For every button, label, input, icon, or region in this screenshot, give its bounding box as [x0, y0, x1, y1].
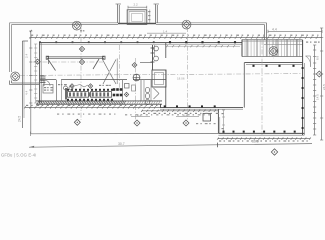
dimension string at wall step	[223, 110, 225, 133]
svg-text:1.4: 1.4	[163, 29, 168, 33]
conference table 2	[91, 92, 112, 98]
table inner marks	[69, 92, 71, 96]
fixture circle a	[64, 86, 68, 90]
svg-text:24.5: 24.5	[17, 116, 21, 122]
plumbing fixture circle 2	[154, 56, 159, 61]
dimension string east v1	[314, 45, 316, 135]
wall hall west	[243, 63, 245, 108]
wire: canopy east drop vertical	[266, 23, 268, 44]
wing partition wall vertical 3	[140, 80, 142, 101]
wire: canopy edge under elevator	[118, 23, 156, 25]
grid line B horizontal short	[33, 61, 103, 63]
wire: canopy edge top-right horizontal	[156, 22, 267, 24]
dimension tier line top right 4.4	[268, 30, 322, 32]
wire: terrace step horizontal	[10, 84, 40, 86]
grid line 3 vertical	[119, 45, 121, 90]
wire: canopy west edge vertical	[9, 23, 11, 72]
column symbol circle-cross	[133, 74, 140, 81]
wc fixtures east	[145, 87, 149, 92]
dimension string east v2	[321, 28, 323, 140]
partition vertical x151	[150, 80, 152, 101]
core wall jagged vertical	[152, 45, 154, 70]
svg-text:30.7: 30.7	[118, 142, 125, 146]
dimension line far west double	[21, 41, 23, 128]
dimension string hall south lower	[218, 138, 310, 140]
svg-text:8.8: 8.8	[315, 55, 319, 60]
wire: elevator lobby wall right	[155, 4, 157, 23]
dimension text row under hall string	[125, 114, 127, 115]
grid marker diamond bottom south	[271, 149, 277, 155]
wall hall mid horizontal with dots	[160, 107, 243, 109]
dimension string west v1	[30, 30, 32, 32]
grid bubble top 2	[72, 21, 81, 30]
wing partition wall horizontal	[40, 79, 56, 81]
grid marker diamond west B	[35, 59, 40, 64]
partition vertical x144	[143, 80, 145, 101]
wire: canopy west edge lower	[9, 81, 11, 85]
door east wall	[306, 55, 311, 57]
grid marker diamond vestibule	[132, 63, 137, 68]
partition vertical x61	[61, 80, 63, 101]
conference table 1	[68, 92, 89, 98]
dimension marks top right corner	[306, 42, 308, 43]
wall north with column dots	[39, 42, 242, 44]
elevator shaft outer walls	[127, 10, 147, 25]
room label text 2	[58, 84, 60, 85]
door swings wc	[154, 88, 160, 94]
door swing mid room	[93, 59, 99, 69]
kitchen fixtures	[125, 84, 130, 89]
grid bubble west A	[11, 72, 20, 81]
grid line 4 vertical	[135, 58, 137, 122]
wall under stair with dots	[244, 62, 302, 64]
chairs bottom row	[67, 99, 69, 101]
stair bottom edge	[242, 56, 303, 58]
wall south with column dots	[218, 132, 304, 134]
grid line 2 vertical	[80, 28, 82, 120]
dimension sub line 4.4 left	[131, 115, 150, 117]
wall corner far west top	[22, 40, 28, 42]
ceiling symbol diamond b	[88, 84, 92, 88]
dimension text row top	[31, 35, 33, 36]
fixture circle b	[69, 86, 73, 90]
dimension line left overall 30.7	[31, 132, 219, 134]
door swing west room	[49, 60, 56, 71]
grid marker diamond east A	[316, 71, 322, 77]
window band wall	[47, 56, 104, 58]
svg-text:GFBu | 5.OG E-4i: GFBu | 5.OG E-4i	[1, 153, 36, 158]
dimension text row under wing string	[57, 114, 59, 115]
dimension tier line top middle	[147, 32, 186, 34]
cabinet room SW	[43, 85, 53, 94]
grid bubble stair E	[269, 47, 278, 56]
chairs top row	[67, 89, 69, 91]
grid line 6 vertical	[261, 40, 263, 135]
wall step vertical at 218	[217, 109, 219, 133]
shaft room rect	[152, 70, 166, 87]
side table bar	[65, 88, 67, 100]
svg-text:4.4: 4.4	[183, 114, 188, 118]
svg-text:36.6: 36.6	[252, 140, 259, 144]
grid marker diamond 2a	[79, 46, 84, 51]
wing partition wall vertical 1	[56, 80, 58, 101]
dimension string top edge	[31, 37, 323, 39]
dimension ticks under north wall	[167, 45, 240, 47]
svg-text:4.4: 4.4	[272, 28, 277, 32]
column notch at wall step	[203, 114, 211, 122]
vestibule splay walls	[103, 60, 110, 72]
wall west of wing	[39, 43, 41, 103]
wing partition wall vertical 2	[122, 80, 124, 101]
dimension line overall bottom	[29, 144, 312, 148]
cabinet block right dark	[113, 88, 116, 91]
svg-text:2.4: 2.4	[25, 53, 29, 58]
dimension chain elevator right side	[149, 10, 151, 24]
grid bubble top 5	[182, 20, 191, 29]
room label text 1	[99, 85, 101, 86]
svg-text:18.06: 18.06	[177, 77, 185, 81]
grid marker diamond bottom 2	[74, 119, 80, 125]
grid line stair vertical	[273, 40, 275, 59]
wall east with column dots	[302, 40, 304, 135]
svg-text:4.4: 4.4	[25, 90, 29, 95]
stair treads	[241, 39, 243, 57]
dimension sub line 4.4 right	[176, 115, 199, 117]
grid marker diamond bottom 5	[183, 120, 189, 126]
svg-text:14.5: 14.5	[315, 94, 319, 100]
grid line 5 vertical	[187, 27, 189, 122]
grid marker diamond bottom 4	[134, 120, 140, 126]
door arc room SW	[44, 80, 50, 86]
plumbing fixture circle 1	[154, 46, 159, 51]
svg-text:2.2: 2.2	[134, 3, 139, 7]
ceiling symbol diamond a	[70, 84, 74, 88]
grid marker diamond 2b	[79, 59, 84, 64]
wall south of wing hatched	[36, 100, 162, 102]
partition stub near shaft	[140, 62, 152, 64]
wire: canopy edge top-left horizontal	[10, 22, 119, 24]
wall step at 160	[160, 104, 162, 107]
elevator car	[132, 13, 143, 21]
stair west wall	[241, 40, 243, 57]
dimension string hall south upper	[142, 110, 218, 112]
dimension ticks west v2	[34, 43, 37, 45]
dimension text near column notch	[196, 123, 198, 124]
grid line A horizontal	[20, 74, 302, 76]
dimension line elevator width 2.2	[128, 6, 147, 8]
stair top edge	[242, 39, 303, 41]
wire: elevator lobby wall left	[117, 4, 119, 23]
dimension string wing south	[25, 106, 160, 108]
wall east of wing	[165, 43, 167, 58]
